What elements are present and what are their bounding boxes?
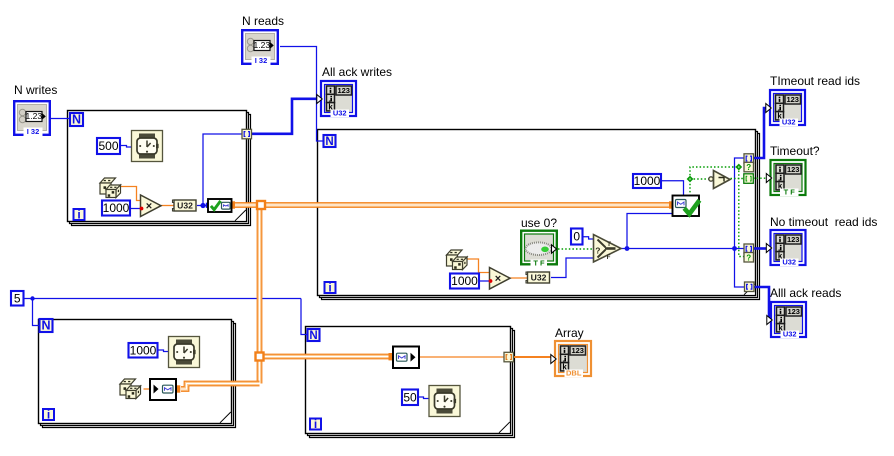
wire id up to tunnel1 xyxy=(735,158,745,249)
wire u32 to writer xyxy=(197,205,209,207)
wire 1000 to multiply xyxy=(131,208,141,210)
to-u32 conversion loop1 xyxy=(173,200,197,211)
indicator Timeout? xyxy=(766,160,805,197)
channel pipe writer3 elbow xyxy=(181,384,260,390)
svg-text:No timeout read ids: No timeout read ids xyxy=(770,215,877,229)
wire select out to tunnels xyxy=(627,248,745,250)
indicator Alll ack reads xyxy=(767,302,806,339)
svg-text:×: × xyxy=(495,273,501,285)
svg-text:i: i xyxy=(47,408,50,422)
svg-text:T: T xyxy=(607,241,611,248)
svg-text:123: 123 xyxy=(571,346,584,355)
channel writer node loop1 xyxy=(206,199,232,212)
wire 1000b to multiply2 xyxy=(479,280,490,282)
svg-text:N reads: N reads xyxy=(242,14,284,28)
pipe junction 1 xyxy=(257,201,265,209)
loop2 iteration terminal i xyxy=(325,281,336,295)
channel pipe writer1 to reader2 xyxy=(234,202,670,208)
select function xyxy=(594,235,622,263)
svg-text:I 32: I 32 xyxy=(27,127,40,136)
constant 50 xyxy=(402,390,418,406)
loop1 count terminal N xyxy=(70,113,83,127)
wire 1000c to wait3 xyxy=(158,350,169,352)
wire u32b to select f xyxy=(551,258,594,278)
wire 5 to loop4 N xyxy=(301,299,307,335)
wire 5 to loops xyxy=(24,298,301,300)
wire dice1 to multiply xyxy=(121,187,141,201)
svg-text:?: ? xyxy=(595,246,600,256)
svg-text:U32: U32 xyxy=(783,330,797,339)
wire reader timedout up xyxy=(689,179,691,196)
wire select out to reader xyxy=(621,214,673,249)
wire N reads down to loop2 N xyxy=(280,47,323,142)
svg-text:50: 50 xyxy=(403,390,417,404)
wire 0 to select t xyxy=(583,237,594,239)
wait function loop3 xyxy=(169,337,200,368)
svg-text:U32: U32 xyxy=(782,118,796,127)
wire not out to tunnel2 xyxy=(731,178,745,180)
svg-text:123: 123 xyxy=(786,95,799,104)
svg-text:N: N xyxy=(325,136,333,148)
svg-text:1000: 1000 xyxy=(103,201,130,215)
random number dice loop2 xyxy=(447,250,468,270)
svg-text:Alll ack reads: Alll ack reads xyxy=(770,286,841,300)
for-loop 4 (bottom reads) xyxy=(306,327,515,438)
svg-text:1.23: 1.23 xyxy=(254,40,271,50)
svg-text:Array: Array xyxy=(555,326,584,340)
pipe terminal reader2 in xyxy=(669,201,674,208)
wire writer branch to tunnel xyxy=(203,134,243,206)
label No timeout read ids xyxy=(770,215,877,229)
svg-text:i: i xyxy=(77,208,80,222)
svg-text:DBL: DBL xyxy=(566,369,582,378)
svg-text:U32: U32 xyxy=(782,258,796,267)
constant 1000 loop2 xyxy=(450,274,479,289)
output tunnel 4 xyxy=(745,282,755,292)
pipe terminal reader4 in xyxy=(389,353,394,360)
for-loop 3 (bottom writes) xyxy=(39,320,236,428)
label TImeout read ids xyxy=(770,74,860,88)
channel reader node loop4 xyxy=(393,347,419,369)
svg-text:123: 123 xyxy=(787,307,800,316)
svg-text:N: N xyxy=(72,113,81,127)
loop4 count terminal N xyxy=(308,329,320,342)
pipe terminal writer1 out xyxy=(231,201,236,208)
for-loop 1 (writes) xyxy=(68,111,251,226)
svg-text:0: 0 xyxy=(573,230,580,244)
conditional tunnel 1 value xyxy=(744,154,754,164)
coercion dot multiply2 xyxy=(489,279,493,283)
svg-text:N writes: N writes xyxy=(14,83,57,97)
constant 1000 loop3 xyxy=(129,343,158,358)
svg-text:1000: 1000 xyxy=(634,174,661,188)
wire multiply2 to u32b xyxy=(510,277,527,279)
wire tunnel3 to No timeout indicator xyxy=(754,247,769,250)
label Alll ack reads xyxy=(770,286,841,300)
constant 1000 timeout xyxy=(633,174,661,188)
svg-text:Timeout?: Timeout? xyxy=(770,144,820,158)
svg-text:TImeout read ids: TImeout read ids xyxy=(770,74,860,88)
wait function loop1 xyxy=(132,131,163,162)
svg-text:i: i xyxy=(314,417,317,431)
svg-text:use 0?: use 0? xyxy=(521,216,557,230)
pipe terminal writer3 out xyxy=(176,385,181,392)
wire timedout to not xyxy=(690,178,709,180)
conditional tunnel 3 condition xyxy=(744,253,754,263)
loop2 count terminal N xyxy=(324,135,336,148)
channel reader node loop2 xyxy=(673,196,700,217)
loop3 count terminal N xyxy=(40,319,53,333)
junction dot id xyxy=(732,246,737,251)
wire 1000 to reader timeout xyxy=(662,181,684,196)
to-u32 conversion loop2 xyxy=(526,272,550,283)
label use 0? xyxy=(521,216,557,230)
wire N writes to loop1 N xyxy=(51,118,69,120)
svg-text:123: 123 xyxy=(787,235,800,244)
label Array xyxy=(555,326,584,340)
svg-text:F: F xyxy=(607,254,611,261)
label N reads xyxy=(242,14,284,28)
wire use0 to select s xyxy=(558,248,594,250)
channel pipe junction2 to reader4 xyxy=(260,354,391,360)
svg-text:U32: U32 xyxy=(177,201,193,211)
loop3 iteration terminal i xyxy=(43,408,54,422)
wire 5 branch to loop3 N xyxy=(33,299,40,326)
junction dot u32-writer xyxy=(200,203,205,208)
constant 5 xyxy=(11,291,24,306)
label Timeout? xyxy=(770,144,820,158)
svg-text:All ack writes: All ack writes xyxy=(322,65,392,79)
svg-text:?: ? xyxy=(746,163,751,172)
wire reader4 to tunnel xyxy=(419,356,505,358)
multiply loop2 xyxy=(490,268,511,290)
random number dice loop1 xyxy=(100,178,121,198)
wire 500 to wait xyxy=(121,146,132,148)
pipe junction 2 xyxy=(256,353,264,361)
svg-text:T F: T F xyxy=(784,188,796,197)
output tunnel loop1 xyxy=(242,129,252,139)
control N writes xyxy=(14,101,50,136)
boolean constant use 0? xyxy=(521,231,557,268)
svg-text:U32: U32 xyxy=(333,109,347,118)
control N reads xyxy=(242,30,278,65)
indicator Array xyxy=(551,341,591,378)
label All ack writes xyxy=(322,65,392,79)
coercion dot multiply1 xyxy=(140,207,144,211)
junction dot 5 xyxy=(30,296,34,300)
tunnel 2 Timeout boolean xyxy=(744,174,754,184)
wire cond down to tunnel3 xyxy=(739,167,745,257)
wire tunnel to Array indicator xyxy=(514,356,552,358)
loop4 iteration terminal i xyxy=(310,417,321,431)
wire tunnel1 to TImeout indicator xyxy=(753,108,768,158)
wire dice2 to multiply2 xyxy=(467,259,490,273)
boolean junction diamond 2 xyxy=(735,164,742,171)
svg-text:×: × xyxy=(146,201,152,213)
indicator No timeout read ids xyxy=(766,230,805,267)
channel pipe vertical xyxy=(257,205,263,384)
constant 500 xyxy=(97,138,120,154)
wait function loop4 xyxy=(429,386,460,417)
svg-text:i: i xyxy=(328,281,331,295)
constant 1000 loop1 xyxy=(102,201,130,216)
indicator TImeout read ids xyxy=(766,90,805,127)
wire tunnel2 to Timeout indicator xyxy=(753,177,768,179)
svg-text:N: N xyxy=(41,319,50,333)
wire dice3 to writer3 xyxy=(144,388,152,390)
svg-text:1.23: 1.23 xyxy=(26,111,43,121)
svg-text:I 32: I 32 xyxy=(255,56,268,65)
svg-text:T F: T F xyxy=(533,258,545,267)
svg-text:123: 123 xyxy=(787,165,800,174)
svg-text:N: N xyxy=(309,330,317,342)
output tunnel loop4 xyxy=(504,352,514,362)
for-loop 2 (reads with timeout) xyxy=(318,130,760,300)
wire id down to tunnel4 xyxy=(735,249,746,288)
svg-text:500: 500 xyxy=(98,139,118,153)
junction dot select-out xyxy=(625,246,630,251)
svg-text:U32: U32 xyxy=(531,273,547,283)
loop1 iteration terminal i xyxy=(74,208,85,222)
svg-text:123: 123 xyxy=(337,86,350,95)
svg-text:1000: 1000 xyxy=(130,343,157,357)
not function xyxy=(709,171,730,189)
random number dice loop3 xyxy=(120,379,141,399)
wire timedout up right xyxy=(690,167,737,179)
boolean junction diamond 1 xyxy=(687,176,694,183)
wire tunnel4 to Alll ack indicator xyxy=(754,287,770,320)
multiply loop1 xyxy=(141,195,162,217)
wire 50 to wait4 xyxy=(419,397,430,399)
indicator All ack writes xyxy=(317,81,356,118)
wire multiply to u32 xyxy=(161,205,174,207)
conditional tunnel 3 value xyxy=(744,244,754,254)
svg-text:1000: 1000 xyxy=(451,274,478,288)
wire loop1 tunnel to All ack writes xyxy=(251,99,317,134)
constant 0 xyxy=(571,229,583,245)
label N writes xyxy=(14,83,57,97)
svg-text:?: ? xyxy=(746,253,751,262)
svg-text:5: 5 xyxy=(14,291,21,305)
conditional tunnel 1 condition xyxy=(744,162,754,172)
channel writer node loop3 xyxy=(150,379,176,400)
